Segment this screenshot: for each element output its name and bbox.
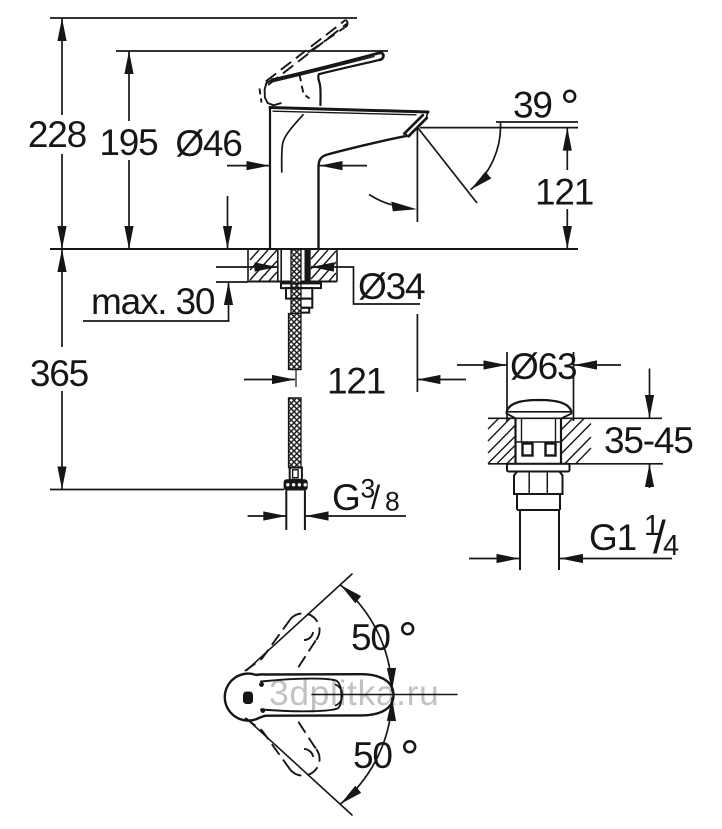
svg-text:Ø46: Ø46 — [175, 123, 241, 164]
dimension G3/8 arrows — [248, 515, 287, 517]
svg-text:35-45: 35-45 — [604, 420, 693, 461]
dimension 39 deg arc — [471, 121, 501, 189]
counter plate right edge — [336, 249, 338, 282]
overflow window left — [523, 444, 533, 456]
wire: 39 deg label underline — [496, 121, 578, 123]
drain flange — [507, 464, 570, 472]
lever top view outline — [225, 674, 394, 721]
svg-text:G1: G1 — [589, 517, 636, 558]
dimension right 121 vertical — [566, 128, 568, 170]
svg-text:max. 30: max. 30 — [91, 281, 215, 322]
svg-text:G: G — [332, 477, 360, 518]
spout tip connector — [405, 112, 429, 136]
ghost lever down — [245, 718, 290, 770]
faucet body top cap — [270, 108, 428, 113]
wire: spout outlet vertical extension — [416, 128, 418, 222]
wire: 228 top extension line — [50, 17, 357, 19]
lever top view inner contour — [261, 679, 341, 712]
top view slanted line upper — [247, 574, 352, 670]
G3/8 pipe — [285, 491, 287, 531]
nut step 1 — [301, 299, 312, 308]
drain body inner walls — [521, 418, 523, 442]
wire: 39 deg slanted ray — [418, 128, 477, 203]
dimension Ø63 arrows — [457, 364, 507, 366]
knurled nut G3/8 — [284, 479, 308, 490]
top view slanted line lower — [247, 719, 352, 815]
washer under counter — [281, 283, 321, 288]
dimension mid 121 arrows — [244, 379, 295, 381]
handle lever underside — [318, 60, 380, 105]
threaded stud — [291, 250, 301, 314]
top view centerline — [312, 694, 457, 696]
svg-text:365: 365 — [30, 353, 89, 394]
dimension 35-45 arrows — [649, 369, 651, 419]
svg-text:121: 121 — [327, 361, 385, 402]
drain cylinder — [517, 494, 560, 510]
lever dots — [259, 682, 264, 687]
drain body divider — [516, 441, 562, 443]
counter plate bottom edge — [248, 281, 337, 283]
drain cap rim and neck — [507, 412, 572, 419]
svg-text:Ø34: Ø34 — [358, 266, 425, 307]
counter hatch left — [488, 419, 515, 464]
svg-text:Ø63: Ø63 — [510, 346, 576, 387]
svg-text:8: 8 — [385, 487, 400, 517]
faucet body right wall and spout underside — [319, 136, 408, 249]
ghost neck marks — [300, 75, 304, 93]
dashed raised-handle ghost — [260, 20, 348, 103]
handle lever top edge — [272, 53, 383, 80]
wire: spout swivel arrow — [369, 195, 392, 205]
node: swivel arrowhead — [391, 202, 417, 212]
handle pivot front blob — [265, 80, 281, 106]
ghost lever underside B — [308, 27, 345, 52]
lever button — [243, 692, 253, 705]
overflow window right — [546, 444, 556, 456]
spout aerator tip — [404, 115, 423, 133]
ghost lever line A1 — [266, 20, 346, 82]
top view 50deg arc lower — [341, 698, 393, 804]
drain locknut — [514, 472, 563, 495]
dimension 228 vertical — [61, 18, 63, 115]
dimension max30 upper arrow — [227, 196, 229, 249]
ghost lever tip arc — [345, 20, 348, 27]
drain body outer walls — [514, 418, 516, 464]
dimension Ø34 arrows and leader — [216, 266, 278, 268]
dimension G1 1/4 arrows — [469, 558, 520, 560]
top view 50deg arc upper — [341, 585, 393, 691]
faucet body left wall — [269, 108, 271, 250]
wire: countertop base line — [50, 248, 578, 250]
counter hatch right — [561, 419, 591, 464]
node: hose break centerline tick — [295, 369, 297, 387]
lever inner crescent — [336, 685, 343, 706]
mounting nut — [286, 288, 312, 299]
svg-text:4: 4 — [663, 530, 679, 562]
svg-text:/: / — [371, 479, 381, 516]
svg-text:121: 121 — [535, 172, 593, 213]
nut step 2 — [301, 308, 309, 313]
shank left wall — [277, 249, 279, 282]
wire: 195 extension line — [116, 50, 388, 52]
counter bottom line — [488, 463, 663, 465]
ghost lever line A2 — [268, 24, 347, 85]
wire: 365 bottom reference line — [50, 489, 284, 491]
hose upper break cap — [291, 369, 301, 371]
counter top line — [488, 417, 662, 419]
drain threaded pipe G1 1/4 — [519, 510, 521, 570]
dimension Ø46 arrows — [227, 165, 270, 167]
wire: spout outlet horizontal extension — [420, 127, 578, 129]
flexible hose lower segment — [289, 398, 302, 468]
hatch right of shank — [311, 250, 336, 281]
handle lever second edge — [274, 57, 375, 82]
dashed rotated levers top view — [245, 613, 320, 775]
svg-text:195: 195 — [99, 122, 158, 163]
hose end fitting box — [290, 468, 302, 480]
drain cap dome — [507, 400, 572, 412]
shank right wall (solid) — [305, 249, 311, 282]
dimension Ø63 extension lines — [506, 352, 508, 421]
ghost lever up — [245, 619, 290, 671]
node: Ø34 right arrowhead — [311, 266, 330, 268]
counter plate left edge — [247, 249, 249, 282]
hatch left of shank — [250, 250, 277, 281]
svg-text:228: 228 — [28, 114, 86, 155]
dimension max30 lower arrow and leader — [228, 282, 230, 321]
dimension 195 vertical — [128, 51, 130, 121]
dimension 365 vertical — [61, 249, 63, 347]
spout inner curve — [282, 115, 303, 172]
